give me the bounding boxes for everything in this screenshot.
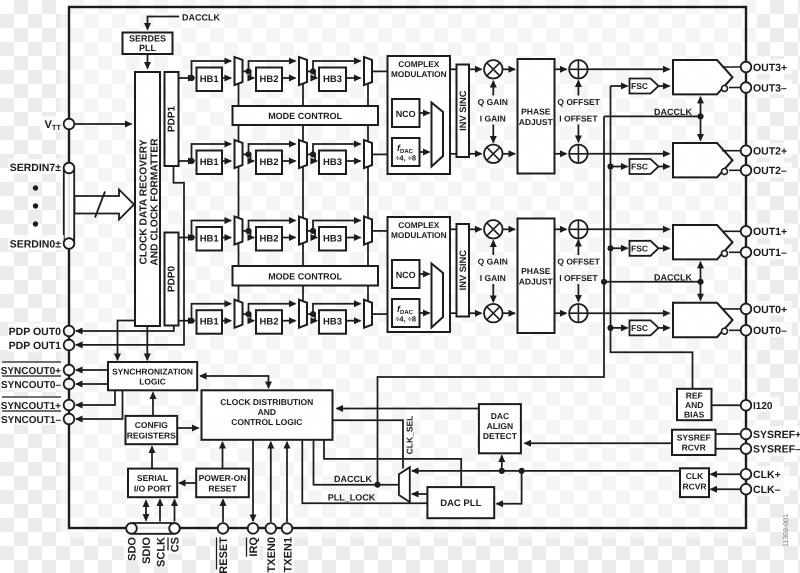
pin PDP OUT1 label: [8, 338, 64, 353]
row3 HB1 box: [197, 227, 223, 251]
row2 bypass wire to mux1: [192, 144, 232, 161]
row3 wire into HB2: [251, 231, 255, 238]
clock-dist to DAC PLL wire: [324, 440, 461, 486]
pin SYSREF- label: [752, 441, 800, 456]
row2 mux2 output junction: [307, 153, 315, 155]
fDAC box 1: [392, 138, 420, 166]
I gain multiplier 1: [484, 145, 502, 163]
svg-text:RCVR: RCVR: [682, 482, 706, 492]
pin OUT1+ label: [752, 223, 792, 238]
pin OUT3+ label: [752, 59, 792, 74]
row3 HB2 to mux2 wire: [282, 237, 296, 239]
svg-text:PDP OUT1: PDP OUT1: [9, 340, 61, 352]
svg-text:SDIO: SDIO: [141, 537, 153, 564]
row4 input junction: [188, 318, 194, 324]
REF AND BIAS box: [677, 389, 712, 420]
svg-text:FSC: FSC: [631, 244, 648, 254]
svg-text:I GAIN: I GAIN: [480, 273, 506, 283]
I path to inv sinc 2: [450, 312, 457, 314]
row1 input junction: [188, 75, 194, 81]
row1 HB2 to mux2 wire: [282, 77, 296, 79]
PHASE ADJUST box 1: [518, 59, 555, 174]
complex mod mux 1: [432, 103, 444, 167]
svg-text:OUT3–: OUT3–: [753, 82, 787, 94]
row1 mux2: [299, 57, 307, 85]
pin OUT0- label: [752, 322, 792, 337]
row4 mux1: [235, 300, 243, 328]
svg-text:HB3: HB3: [323, 157, 342, 168]
wire ref-bias to I120: [712, 404, 741, 406]
pin SERDIN0 terminal: [64, 238, 75, 249]
pin VTT terminal: [64, 119, 75, 130]
svg-text:HB1: HB1: [200, 157, 220, 168]
mode control 2 lower connector x238.5: [238, 286, 240, 302]
bus block arrow into CDR: [75, 190, 135, 220]
phase adjust to I adder arrow 1: [555, 153, 567, 155]
row1 mux1: [235, 57, 243, 85]
row4 HB3 to mux3 wire: [346, 320, 361, 322]
I offset adder 1: [569, 145, 587, 163]
I multiplier to phase adjust arrow 1: [503, 153, 516, 155]
mode control 2 upper connector x303: [302, 244, 304, 267]
svg-text:SYSREF–: SYSREF–: [753, 444, 800, 456]
svg-text:MODULATION: MODULATION: [391, 69, 447, 79]
row4 wire into HB2: [251, 314, 255, 321]
svg-text:CS: CS: [170, 537, 182, 552]
SERDES PLL box: [123, 33, 173, 55]
pin OUT2- label: [752, 162, 792, 177]
row4 mux2 output junction: [307, 313, 315, 315]
svg-text:SERDES: SERDES: [129, 34, 166, 44]
FSC bus junction OUT1: [607, 245, 613, 251]
Q adder to DAC wire 1: [588, 68, 670, 70]
pin CLK+ label: [752, 466, 790, 481]
svg-text:CLK+: CLK+: [753, 469, 781, 481]
DAC core OUT3: [673, 60, 733, 94]
row3 wire into HB3: [315, 231, 317, 238]
FSC to DAC arrow OUT1: [659, 247, 670, 249]
DAC OUT0 inverted output bubble: [722, 328, 728, 334]
row3 input wire from PDP0: [179, 237, 195, 239]
row2 mux2: [299, 140, 307, 168]
DAC ALIGN DETECT box: [479, 404, 521, 453]
row2 HB2 to mux2 wire: [282, 160, 296, 162]
fDAC to mux arrow 2: [420, 312, 430, 314]
MODE CONTROL box 2: [233, 266, 379, 286]
SYSREF RCVR box: [672, 430, 716, 455]
Q offset adder 2: [569, 220, 587, 238]
FSC control box OUT1: [630, 241, 659, 256]
svg-text:SERDIN7±: SERDIN7±: [10, 162, 62, 174]
svg-text:SYSREF: SYSREF: [677, 433, 711, 443]
Q path to inv sinc 2: [450, 228, 457, 230]
row2 HB1 to mux1 wire: [222, 160, 231, 162]
svg-text:ALIGN: ALIGN: [487, 421, 513, 431]
svg-text:HB1: HB1: [200, 234, 220, 245]
svg-text:OUT2+: OUT2+: [753, 146, 787, 158]
I gain multiplier 2: [484, 304, 502, 322]
row1 wire into HB2: [251, 71, 255, 78]
Q multiplier to phase adjust arrow 2: [503, 228, 516, 230]
pin V_TT label: [40, 116, 64, 131]
pin SYNCOUT1+ terminal: [64, 400, 75, 411]
pin SYSREF+ label: [752, 426, 800, 441]
wire OUT0- output: [729, 329, 741, 331]
svg-text:HB1: HB1: [200, 317, 220, 328]
PHASE ADJUST box 2: [518, 219, 555, 334]
SDIO bidirectional arrow: [145, 501, 147, 521]
pin OUT2+ terminal: [741, 145, 752, 156]
mode control 1 upper connector x238.5: [238, 84, 240, 106]
svg-text:Q OFFSET: Q OFFSET: [557, 97, 600, 107]
svg-text:CLK–: CLK–: [753, 484, 781, 496]
row2 HB1 box: [197, 151, 223, 175]
phase adjust to Q adder arrow 1: [555, 68, 567, 70]
pin OUT1+ terminal: [741, 226, 752, 237]
wire OUT3- output: [729, 87, 741, 89]
svg-text:HB3: HB3: [323, 317, 342, 328]
pin SCLK label: [153, 537, 168, 567]
FSC bus junction OUT2: [607, 163, 613, 169]
svg-text:SYNCHRONIZATION: SYNCHRONIZATION: [112, 367, 193, 377]
svg-text:CONTROL LOGIC: CONTROL LOGIC: [231, 417, 302, 427]
CONFIG REGISTERS box: [126, 416, 178, 444]
svg-text:FSC: FSC: [631, 162, 648, 172]
wire PDP OUT1 from PDP1 bottom: [76, 166, 184, 345]
svg-text:÷4, ÷8: ÷4, ÷8: [395, 315, 416, 324]
svg-text:HB1: HB1: [200, 74, 220, 85]
svg-text:OUT0–: OUT0–: [753, 325, 787, 337]
svg-text:Q OFFSET: Q OFFSET: [557, 257, 600, 267]
pin SYSREF- terminal: [741, 443, 752, 454]
INV SINC box 1: [457, 65, 470, 158]
pin CS label: [167, 537, 182, 554]
wire SYNCOUT0- from sync logic: [76, 383, 108, 385]
mode control 1 lower connector x303: [302, 125, 304, 142]
svg-text:OUT2–: OUT2–: [753, 165, 787, 177]
pin I120 label: [752, 397, 780, 412]
svg-text:DAC PLL: DAC PLL: [440, 498, 481, 509]
row1 mux3: [364, 57, 372, 85]
svg-text:PLL: PLL: [139, 43, 157, 53]
svg-text:SERIAL: SERIAL: [137, 473, 168, 483]
wire OUT2+ output: [722, 150, 741, 152]
mux select connector between halves x368: [367, 167, 369, 218]
row4 HB2 to mux2 wire: [282, 320, 296, 322]
pin SDO terminal: [126, 523, 137, 534]
svg-text:11369-001: 11369-001: [783, 514, 790, 547]
FSC control box OUT3: [630, 79, 659, 94]
svg-text:SDO: SDO: [127, 537, 139, 561]
svg-text:COMPLEX: COMPLEX: [398, 220, 439, 230]
inv sinc to I multiplier arrow 1: [469, 153, 482, 155]
row1 wire to complex modulation: [372, 70, 388, 72]
fDAC box 2: [392, 299, 420, 327]
NCO to mux arrow 2: [420, 273, 430, 275]
row4 wire into HB3: [315, 314, 317, 321]
phase adjust to Q adder arrow 2: [555, 228, 567, 230]
mode control 2 upper connector x368: [367, 244, 369, 267]
row4 bypass wire to mux2: [249, 304, 296, 314]
svg-text:I OFFSET: I OFFSET: [559, 113, 598, 123]
config to sync arrow: [152, 393, 154, 416]
pin OUT3+ terminal: [741, 62, 752, 73]
svg-text:SYSREF+: SYSREF+: [753, 429, 800, 441]
SERIAL I/O PORT box: [128, 469, 177, 498]
svg-text:Q GAIN: Q GAIN: [478, 257, 508, 267]
svg-text:DAC: DAC: [491, 411, 509, 421]
pin SDO label: [124, 537, 139, 560]
row3 bypass wire to mux1: [192, 221, 232, 238]
svg-text:I/O PORT: I/O PORT: [134, 484, 172, 494]
svg-text:DACCLK: DACCLK: [654, 272, 692, 282]
wire OUT1+ output: [722, 230, 741, 232]
pin SYNCOUT1+ label: [1, 396, 64, 411]
I adder to DAC wire 2: [588, 312, 670, 314]
svg-text:CLOCK DISTRIBUTION: CLOCK DISTRIBUTION: [220, 397, 313, 407]
dac-align to clock-dist wire: [337, 408, 479, 410]
row2 input junction: [188, 158, 194, 164]
row2 wire into HB3: [315, 154, 317, 161]
row2 bypass wire to mux3: [313, 144, 361, 154]
svg-text:OUT1–: OUT1–: [753, 247, 787, 259]
FSC feed arrow OUT3: [611, 85, 628, 87]
mode control 2 lower connector x368: [367, 286, 369, 302]
pin CS terminal: [169, 523, 180, 534]
PDP0 box: [165, 233, 179, 326]
pin OUT0+ terminal: [741, 304, 752, 315]
svg-text:RCVR: RCVR: [682, 443, 706, 453]
svg-text:INV SINC: INV SINC: [458, 250, 468, 291]
SYNCOUT0+ overline: [2, 361, 61, 363]
svg-text:REGISTERS: REGISTERS: [127, 431, 176, 441]
pin IRQ label: [245, 537, 260, 560]
svg-text:FSC: FSC: [631, 81, 648, 91]
svg-text:SYNCOUT1–: SYNCOUT1–: [1, 415, 61, 426]
DACCLK junction pair 1: [697, 113, 703, 119]
CS arrow into serial port: [174, 500, 176, 522]
svg-text:NCO: NCO: [396, 109, 416, 119]
pin SYNCOUT1– terminal: [64, 414, 75, 425]
PDP1 box: [165, 72, 179, 166]
row3 HB3 to mux3 wire: [346, 237, 361, 239]
pin OUT2- terminal: [741, 165, 752, 176]
CLK receive wire: [412, 470, 680, 472]
mode control 1 lower connector x368: [367, 125, 369, 142]
svg-text:IRQ: IRQ: [248, 537, 260, 557]
svg-text:NCO: NCO: [396, 270, 416, 280]
serial pin bus pill: [126, 523, 180, 534]
row1 bypass wire to mux3: [313, 61, 361, 71]
row4 mux2: [299, 300, 307, 328]
pin SERDIN0± label: [8, 235, 64, 250]
svg-text:PHASE: PHASE: [521, 107, 551, 117]
svg-text:ADJUST: ADJUST: [519, 117, 554, 127]
DAC core OUT2: [673, 143, 733, 177]
DAC OUT1 inverted output bubble: [722, 250, 728, 256]
row2 wire into HB2: [251, 154, 255, 161]
pin TXEN1 terminal: [282, 523, 293, 534]
row3 wire to complex modulation: [372, 230, 388, 232]
row4 wire to complex modulation: [372, 313, 388, 315]
inv sinc to Q multiplier arrow 2: [469, 228, 482, 230]
mode control 1 upper connector x303: [302, 84, 304, 106]
svg-text:HB2: HB2: [259, 317, 278, 328]
row3 HB3 box: [319, 227, 346, 251]
row2 HB3 box: [319, 151, 346, 175]
SCLK arrow into serial port: [159, 500, 161, 522]
svg-text:TXEN0: TXEN0: [266, 537, 278, 572]
config to clock-dist arrow: [177, 427, 198, 429]
FSC control box OUT0: [630, 320, 659, 335]
svg-text:HB2: HB2: [259, 234, 278, 245]
pin TXEN0 terminal: [266, 523, 277, 534]
pin PDP OUT0 label: [8, 323, 64, 338]
row1 bypass wire to mux2: [249, 61, 296, 71]
row2 bypass wire to mux2: [249, 144, 296, 154]
row1 mux1 output junction: [243, 70, 251, 72]
FSC distribution bus: [611, 86, 693, 388]
wire PDP OUT0 from PDP0 bottom: [76, 326, 174, 332]
DACCLK bus junction pair2: [601, 279, 607, 285]
COMPLEX MODULATION box 1: [388, 56, 451, 174]
row2 HB2 box: [256, 151, 282, 175]
svg-text:DACCLK: DACCLK: [334, 474, 372, 484]
ellipsis dots: [33, 185, 38, 190]
row1 bypass wire to mux1: [192, 61, 232, 78]
CLK- arrow into rcvr: [711, 488, 741, 490]
NCO to mux arrow 1: [420, 112, 430, 114]
pin SERDIN7± label: [8, 159, 64, 174]
wire OUT2- output: [729, 169, 741, 171]
SYNCOUT1+ overline: [2, 396, 61, 398]
DACCLK net junction: [374, 482, 380, 488]
svg-text:AND: AND: [685, 400, 703, 410]
pin OUT3- label: [752, 80, 792, 95]
pin SERDIN7 terminal: [64, 163, 75, 174]
pin SYNCOUT0+ label: [1, 361, 64, 376]
mode control 2 lower connector x303: [302, 286, 304, 302]
svg-text:SCLK: SCLK: [156, 537, 168, 567]
svg-text:AND: AND: [258, 407, 276, 417]
DACCLK wire pair 2: [604, 281, 701, 283]
row3 mux2: [299, 217, 307, 245]
pin IRQ terminal: [248, 523, 259, 534]
wire CDR sync tap to sync logic: [118, 321, 136, 361]
CLK+ arrow into rcvr: [711, 473, 741, 475]
mode control 1 upper connector x368: [367, 84, 369, 106]
FSC feed arrow OUT2: [611, 166, 628, 168]
svg-text:OUT0+: OUT0+: [753, 304, 787, 316]
inv sinc to I multiplier arrow 2: [469, 312, 482, 314]
FSC to DAC arrow OUT0: [659, 327, 670, 329]
I offset adder 2: [569, 304, 587, 322]
row4 HB3 box: [319, 310, 346, 334]
CLK wire junction to DAC PLL: [519, 468, 525, 474]
Q multiplier to phase adjust arrow 1: [503, 68, 516, 70]
DAC OUT3 inverted output bubble: [722, 85, 728, 91]
svg-text:ADJUST: ADJUST: [519, 277, 554, 287]
SERDIN bus pill: [64, 163, 74, 249]
svg-text:PDP1: PDP1: [167, 106, 178, 133]
wire VTT to CDR: [74, 123, 131, 125]
complex mod mux 2: [432, 264, 444, 328]
pin PDP OUT0 terminal: [64, 326, 75, 337]
RESET arrow into power-on reset: [222, 500, 224, 523]
wire SYNCOUT1- from sync logic: [76, 390, 123, 419]
DAC core OUT0: [673, 303, 733, 337]
FSC feed arrow OUT0: [611, 327, 628, 329]
TXEN0 arrow into clock dist: [270, 442, 272, 522]
row2 wire to complex modulation: [372, 153, 388, 155]
wire SYNCOUT0+ from sync logic: [76, 369, 108, 371]
Q OFFSET arrow 1: [577, 81, 579, 96]
Q gain multiplier 1: [484, 60, 502, 78]
fDAC to mux arrow 1: [420, 151, 430, 153]
DACCLK double arrow pair 2: [700, 262, 702, 300]
wire SYSREF- to rcvr: [716, 448, 741, 450]
CLK RCVR box: [680, 468, 709, 497]
svg-text:COMPLEX: COMPLEX: [398, 59, 439, 69]
DAC PLL to clock mux arrow: [412, 493, 427, 495]
pin OUT2+ label: [752, 143, 792, 158]
SYNCHRONIZATION LOGIC box: [108, 362, 197, 390]
svg-text:OUT1+: OUT1+: [753, 226, 787, 238]
row4 mux1 output junction: [243, 313, 251, 315]
POWER-ON RESET box: [196, 469, 249, 498]
row2 mux1 output junction: [243, 153, 251, 155]
svg-text:MODULATION: MODULATION: [391, 230, 447, 240]
row3 mux1: [235, 217, 243, 245]
row2 mux3: [364, 140, 372, 168]
Q offset adder 1: [569, 60, 587, 78]
row4 bypass wire to mux3: [313, 304, 361, 314]
svg-text:I120: I120: [753, 401, 773, 412]
Q path to inv sinc 1: [450, 68, 457, 70]
svg-text:÷4, ÷8: ÷4, ÷8: [395, 154, 416, 163]
Q GAIN arrow 1: [492, 81, 494, 96]
pin OUT3- terminal: [741, 82, 752, 93]
row3 input junction: [188, 234, 194, 240]
row2 input wire from PDP1: [179, 160, 195, 162]
power-on-reset to serial port arrow: [179, 482, 196, 484]
pin PDP OUT1 terminal: [64, 340, 75, 351]
svg-text:DETECT: DETECT: [483, 431, 518, 441]
CLOCK DISTRIBUTION box: [202, 390, 333, 440]
row4 bypass wire to mux1: [192, 304, 232, 321]
svg-text:PHASE: PHASE: [521, 266, 551, 276]
I adder to DAC wire 1: [588, 153, 670, 155]
svg-text:SERDIN0±: SERDIN0±: [10, 239, 62, 251]
inv sinc to Q multiplier arrow 1: [469, 68, 482, 70]
svg-text:CLOCK DATA RECOVERY: CLOCK DATA RECOVERY: [139, 139, 150, 264]
FSC control box OUT2: [630, 159, 659, 174]
svg-text:CLK: CLK: [686, 471, 704, 481]
row4 HB1 box: [197, 310, 223, 334]
row2 mux1: [235, 140, 243, 168]
wire OUT3+ output: [722, 66, 741, 68]
DACCLK double arrow pair 1: [700, 97, 702, 141]
I OFFSET arrow 1: [577, 125, 579, 143]
svg-text:OUT3+: OUT3+: [753, 62, 787, 74]
svg-text:MODE CONTROL: MODE CONTROL: [268, 111, 342, 121]
row2 HB3 to mux3 wire: [346, 160, 361, 162]
wire SERDES PLL to CDR: [147, 54, 149, 69]
svg-text:I OFFSET: I OFFSET: [559, 273, 598, 283]
power-on-reset to clock-dist arrow: [222, 442, 224, 469]
TXEN1 arrow into clock dist: [286, 442, 288, 522]
row4 HB2 box: [256, 310, 282, 334]
